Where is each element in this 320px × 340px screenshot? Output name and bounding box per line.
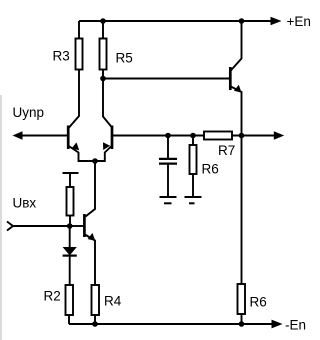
resistor R4	[92, 285, 100, 315]
svg-text:-En: -En	[285, 318, 306, 333]
transistor Q4	[230, 21, 241, 136]
terminal T bar	[63, 172, 79, 174]
resistor R3	[76, 39, 83, 70]
svg-text:Uвх: Uвх	[13, 196, 37, 211]
node input / diode / R1	[67, 223, 73, 229]
input chevron Uвх	[7, 222, 13, 231]
wire R4 bottom lead	[94, 315, 96, 324]
resistor R6 (bottom)	[238, 284, 246, 314]
wire Q2 base to bus	[113, 135, 204, 137]
wire R1 bottom lead	[69, 216, 71, 227]
node R6 bottom / rail	[239, 321, 245, 327]
wire R6 middle top lead	[192, 136, 194, 146]
node R5 / Q4 base	[100, 76, 106, 82]
transistor Q2	[95, 126, 112, 162]
wire R6 bottom lead	[241, 314, 243, 324]
capacitor C1	[159, 159, 177, 164]
diode VD1	[63, 247, 77, 256]
wire capacitor top lead	[167, 136, 169, 159]
wire Q3 base	[70, 225, 83, 227]
wire R6 middle bottom lead	[192, 174, 194, 197]
wire capacitor bottom lead	[167, 165, 169, 197]
resistor R7	[204, 132, 232, 140]
scan artifact left edge	[0, 95, 2, 340]
wire bottom rail	[69, 323, 273, 325]
wire R7 right to output node	[232, 135, 275, 137]
arrow output right	[274, 131, 284, 139]
resistor R2	[66, 285, 74, 315]
wire input	[13, 225, 70, 227]
node R6 middle / bus	[190, 133, 196, 139]
node output	[239, 133, 245, 139]
ground left	[160, 197, 177, 203]
wire Q4 base	[103, 78, 229, 80]
svg-text:R2: R2	[44, 289, 61, 304]
arrow Uynp (left output)	[13, 131, 23, 139]
svg-text:R7: R7	[218, 143, 235, 158]
node top rail / Q4 collector	[239, 18, 245, 24]
wire terminal to R1	[69, 173, 71, 187]
node top rail / R5	[100, 18, 106, 24]
wire emitters to Q3 collector	[86, 161, 96, 217]
wire R2 bottom lead	[68, 315, 70, 324]
wire R5 top lead	[102, 21, 104, 39]
svg-text:R5: R5	[116, 51, 133, 66]
arrow +En	[271, 17, 282, 25]
wire top rail	[79, 20, 272, 22]
ground right	[185, 197, 202, 203]
arrow -En	[272, 320, 283, 329]
wire output node down to R6 bottom	[241, 136, 243, 285]
svg-text:Uynp: Uynp	[13, 105, 45, 120]
transistor Q3	[84, 214, 95, 285]
node R4 / bottom rail	[92, 321, 98, 327]
svg-text:R6: R6	[202, 162, 219, 177]
wire R3 top lead	[78, 21, 80, 39]
resistor R5	[100, 39, 107, 70]
node capacitor / bus	[165, 133, 171, 139]
wire R5 bottom lead / Q2 collector	[103, 70, 112, 128]
svg-text:R6: R6	[250, 295, 267, 310]
resistor R1 (unlabeled)	[67, 187, 74, 216]
wire R3 bottom lead / Q1 collector	[69, 70, 79, 128]
resistor R6 (middle)	[190, 145, 197, 174]
transistor Q1	[68, 126, 95, 162]
wire diode cathode lead	[69, 256, 71, 285]
node common emitters	[92, 158, 98, 164]
svg-text:R4: R4	[104, 294, 122, 309]
svg-text:+En: +En	[287, 14, 311, 29]
wire diode anode lead	[69, 226, 71, 247]
svg-text:R3: R3	[53, 49, 70, 64]
wire Q1 base	[22, 135, 67, 137]
